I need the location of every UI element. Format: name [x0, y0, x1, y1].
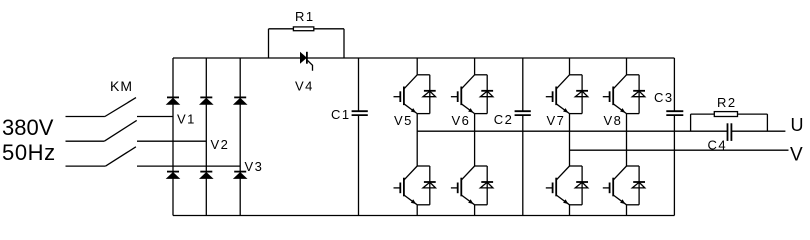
diode upper leg2: [199, 97, 214, 104]
wire R2 bypass left vertical: [690, 114, 692, 131]
capacitor C3 on right edge: [666, 58, 683, 216]
svg-text:R1: R1: [295, 9, 315, 24]
resistor R2: [714, 112, 737, 117]
switch KM pole1 blade: [105, 98, 136, 117]
svg-text:V1: V1: [177, 111, 196, 126]
diode upper leg3: [233, 97, 248, 104]
switch KM pole3 blade: [106, 147, 136, 166]
diode lower leg3: [233, 172, 248, 179]
wire rectifier leg3: [239, 58, 241, 216]
wire bottom DC rail: [173, 215, 674, 217]
svg-text:V: V: [790, 144, 803, 165]
wire V5 leg top: [416, 58, 418, 75]
svg-text:V4: V4: [295, 79, 314, 94]
IGBT V6: [451, 75, 493, 114]
wire R1 bypass top left: [269, 28, 294, 30]
wire phase1 left stub: [66, 116, 105, 118]
wire V7 leg top: [569, 58, 571, 75]
wire V output rail: [570, 149, 789, 151]
IGBT V5: [394, 75, 436, 114]
svg-text:50Hz: 50Hz: [2, 140, 56, 165]
diode V1 (upper leg1): [166, 97, 181, 104]
wire V8 leg middle: [626, 114, 628, 166]
wire V7 leg middle: [569, 114, 571, 166]
svg-text:C3: C3: [654, 90, 674, 105]
wire phase2 to rectifier leg2: [137, 140, 206, 142]
wire R1 bypass right vertical: [343, 29, 345, 58]
IGBT V7: [546, 75, 588, 114]
resistor R1: [293, 27, 313, 31]
svg-text:C2: C2: [494, 112, 514, 127]
svg-text:U: U: [791, 115, 804, 135]
wire phase2 left stub: [66, 140, 105, 142]
IGBT lower of V8 leg: [603, 166, 645, 205]
svg-text:C4: C4: [708, 137, 728, 152]
IGBT lower of V6 leg: [451, 166, 493, 205]
svg-text:V2: V2: [211, 137, 230, 152]
wire V6 leg middle: [474, 114, 476, 166]
capacitor C1: [352, 58, 368, 216]
wire rectifier leg1: [172, 58, 174, 216]
wire R1 bypass top right: [314, 28, 344, 30]
capacitor C4: [728, 123, 732, 141]
wire phase1 to rectifier leg1: [137, 116, 173, 118]
svg-text:380V: 380V: [2, 115, 54, 140]
svg-text:V8: V8: [604, 113, 623, 128]
wire phase3 to rectifier leg3: [137, 165, 240, 167]
switch KM pole2 blade: [104, 120, 136, 141]
wire U output after C4: [731, 130, 785, 132]
svg-text:V7: V7: [547, 113, 566, 128]
wire R2 bypass right vertical: [766, 114, 768, 131]
diode lower leg2: [199, 172, 214, 179]
wire V5 leg bottom: [416, 205, 418, 216]
IGBT V8: [603, 75, 645, 114]
IGBT lower of V7 leg: [546, 166, 588, 205]
svg-text:KM: KM: [110, 78, 133, 94]
wire rectifier leg2: [205, 58, 207, 216]
svg-text:V3: V3: [245, 159, 264, 174]
wire phase3 left stub: [66, 165, 106, 167]
svg-text:V6: V6: [452, 113, 471, 128]
capacitor C2: [515, 58, 531, 216]
svg-text:R2: R2: [717, 95, 737, 110]
thyristor V4: [300, 52, 313, 71]
wire V6 leg top: [474, 58, 476, 75]
diode lower leg1: [166, 172, 181, 179]
wire R2 bypass top left: [691, 113, 715, 115]
wire V8 leg top: [626, 58, 628, 75]
wire V8 leg bottom: [626, 205, 628, 216]
svg-text:V5: V5: [394, 113, 413, 128]
wire U output rail: [417, 130, 727, 132]
wire R2 bypass top right: [738, 113, 768, 115]
wire top DC rail: [173, 57, 674, 59]
wire V7 leg bottom: [569, 205, 571, 216]
wire V5 leg middle: [416, 114, 418, 166]
wire V6 leg bottom: [474, 205, 476, 216]
resistor R1 bypass left vertical: [268, 29, 270, 58]
svg-text:C1: C1: [331, 107, 351, 122]
IGBT lower of V5 leg: [394, 166, 436, 205]
